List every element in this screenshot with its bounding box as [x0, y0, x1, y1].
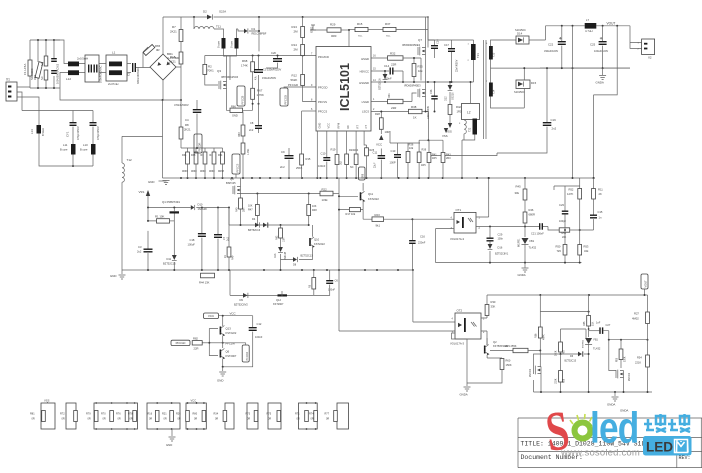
- wire vcc bus: [122, 269, 413, 271]
- connector X1: [6, 82, 17, 101]
- svg-text:T21: T21: [476, 53, 480, 58]
- svg-text:33K: 33K: [491, 305, 496, 309]
- svg-text:2R0: 2R0: [446, 157, 451, 160]
- svg-text:BSP135: BSP135: [226, 181, 236, 185]
- svg-text:S10150C: S10150C: [514, 90, 525, 94]
- resistor R38 1K: [409, 109, 423, 113]
- svg-text:REV:: REV:: [679, 455, 691, 461]
- svg-text:0R: 0R: [194, 418, 197, 421]
- net PFCDR rot flag2: [242, 345, 249, 362]
- node vcc q13: [222, 315, 224, 317]
- resistor R67 176K: [252, 72, 254, 89]
- svg-text:R49: R49: [232, 255, 235, 260]
- svg-text:1.76K: 1.76K: [257, 93, 264, 97]
- svg-text:2n2: 2n2: [249, 128, 254, 132]
- resistor R39 1R5: [418, 140, 420, 152]
- svg-text:127K: 127K: [567, 192, 573, 196]
- svg-text:BZT52B16: BZT52B16: [379, 78, 382, 90]
- svg-text:B core: B core: [80, 148, 88, 152]
- resistor R2 70K1: [204, 56, 206, 65]
- svg-text:D2: D2: [203, 10, 207, 14]
- svg-text:100nF/305VAC: 100nF/305VAC: [99, 65, 103, 83]
- mosfet Q5 2N7002: [534, 366, 542, 375]
- svg-text:R55: R55: [583, 321, 586, 326]
- diode D15 S10150C: [516, 80, 530, 89]
- svg-text:PFCCS: PFCCS: [318, 110, 327, 114]
- svg-text:R72: R72: [60, 413, 65, 416]
- svg-text:47u: 47u: [255, 75, 258, 80]
- svg-text:680R: 680R: [529, 213, 535, 217]
- svg-text:Q3: Q3: [217, 69, 221, 73]
- svg-text:R74: R74: [309, 413, 314, 416]
- svg-text:C22: C22: [548, 43, 554, 47]
- svg-text:0R: 0R: [149, 418, 152, 421]
- svg-text:VCC: VCC: [327, 123, 331, 129]
- svg-text:10K: 10K: [312, 205, 317, 208]
- svg-text:35R: 35R: [243, 207, 246, 212]
- svg-text:10R: 10R: [283, 237, 286, 242]
- svg-text:R17 10k: R17 10k: [346, 212, 356, 216]
- svg-text:Q1 PMMT491: Q1 PMMT491: [162, 200, 180, 204]
- svg-text:0R68: 0R68: [182, 171, 188, 173]
- wire d4 row: [229, 208, 309, 226]
- svg-text:R7: R7: [172, 25, 176, 29]
- capacitor C20in: [51, 58, 57, 59]
- svg-text:51K: 51K: [592, 321, 595, 326]
- wire input top rail: [30, 40, 60, 62]
- capacitor C1: [132, 63, 133, 72]
- resistor R7 2K21: [180, 17, 182, 30]
- wire ot2 feed top: [413, 270, 455, 322]
- svg-text:C26: C26: [430, 89, 433, 94]
- svg-text:DR8: DR8: [363, 173, 365, 178]
- svg-text:R52: R52: [569, 188, 574, 192]
- wire Q7 drain to rail: [426, 17, 429, 48]
- svg-text:MC/FB1: MC/FB1: [519, 238, 521, 247]
- resistor R56 464K: [539, 312, 541, 327]
- wire ot2 out2: [481, 331, 487, 345]
- node ot1 dots: [488, 177, 490, 179]
- svg-text:B core: B core: [218, 40, 221, 48]
- capacitor C9 2n2: [288, 154, 290, 156]
- node pe: [72, 165, 74, 167]
- optocoupler OT1 VOL617A-3: [454, 212, 476, 233]
- svg-text:GND: GND: [217, 379, 223, 383]
- resistor R32 22R: [388, 56, 404, 60]
- resistor R59 530K: [620, 340, 622, 349]
- node pfcdr: [222, 342, 224, 344]
- svg-text:Q11: Q11: [368, 192, 374, 196]
- capacitor C13 100pF: [397, 143, 399, 154]
- node q1 dots: [147, 207, 149, 209]
- resistor R43 2R0: [442, 140, 444, 152]
- svg-text:2K21: 2K21: [184, 128, 191, 132]
- node bus dots: [180, 177, 182, 179]
- svg-text:FB1: FB1: [594, 339, 599, 342]
- wire Q8 source: [426, 97, 429, 141]
- wire ot2 feeds: [339, 178, 455, 331]
- capacitor CY1: [70, 122, 77, 123]
- transformer T23 secondary: [489, 46, 493, 60]
- svg-text:R58: R58: [564, 378, 566, 383]
- svg-text:0R68: 0R68: [191, 171, 197, 173]
- svg-text:T11: T11: [216, 25, 221, 29]
- svg-text:0R: 0R: [178, 418, 181, 421]
- node rail100: [162, 99, 164, 101]
- wire q2 col: [486, 338, 488, 344]
- svg-text:C23: C23: [559, 203, 564, 207]
- net PFCGD rot flag: [280, 88, 288, 106]
- svg-text:20K: 20K: [562, 236, 567, 239]
- svg-text:22R: 22R: [391, 63, 396, 67]
- svg-text:VCC: VCC: [191, 399, 197, 403]
- svg-text:R63: R63: [238, 132, 241, 137]
- svg-text:C21 100nF: C21 100nF: [531, 232, 544, 236]
- capacitor C6 100nF: [329, 270, 331, 280]
- svg-text:R75: R75: [267, 413, 272, 416]
- inductor L14: [37, 125, 42, 134]
- resistor R44 13K: [201, 273, 215, 278]
- svg-text:0R: 0R: [268, 418, 271, 421]
- svg-text:L7: L7: [586, 18, 590, 22]
- svg-text:PFCGD: PFCGD: [318, 86, 327, 90]
- svg-text:0R: 0R: [32, 418, 35, 421]
- resistor R34 0R68: [187, 148, 189, 152]
- svg-text:www.sosoled.com: www.sosoled.com: [560, 448, 640, 459]
- svg-text:R40: R40: [236, 207, 239, 212]
- inductor L6 core: [235, 38, 239, 49]
- resistor R64 0R68: [222, 148, 224, 152]
- svg-text:C4: C4: [185, 118, 189, 122]
- resistor R36 10k: [407, 143, 409, 152]
- resistor R15 n.c.: [349, 29, 355, 31]
- svg-text:R59: R59: [617, 357, 619, 362]
- svg-text:D9: D9: [240, 298, 244, 302]
- svg-text:D14: D14: [517, 32, 523, 36]
- resistor R33 0R68: [195, 148, 197, 152]
- svg-text:100uF: 100uF: [188, 243, 196, 247]
- svg-text:T24: T24: [493, 89, 496, 94]
- node mesh bottom dots: [540, 391, 542, 393]
- svg-text:R34: R34: [182, 154, 187, 157]
- diode D10 1N4148: [191, 205, 195, 210]
- svg-text:1R5: 1R5: [432, 157, 437, 160]
- diode D12 SS210: [449, 82, 451, 85]
- wire fb bottom: [436, 262, 582, 264]
- svg-text:R35: R35: [418, 65, 424, 69]
- resistor R58 152K: [560, 354, 562, 371]
- resistor R77 0R: [337, 403, 349, 429]
- svg-text:0R: 0R: [297, 418, 300, 421]
- svg-text:IPP60R125C6: IPP60R125C6: [221, 75, 239, 79]
- inductor L10: [91, 144, 96, 155]
- resistor group R79 R70 R76 R78: [94, 403, 138, 429]
- svg-text:IPD600R45E3: IPD600R45E3: [404, 84, 421, 88]
- svg-text:LED: LED: [646, 440, 673, 455]
- svg-text:D15: D15: [531, 81, 537, 85]
- svg-text:Q12: Q12: [276, 298, 281, 302]
- svg-text:330nF/305VAC: 330nF/305VAC: [137, 67, 140, 84]
- resistor R22 133k: [319, 193, 321, 195]
- wire Q7 source / half-bridge node: [425, 55, 427, 83]
- wire q9 row: [241, 194, 321, 199]
- svg-text:PFCDR: PFCDR: [198, 142, 202, 151]
- svg-text:2K21: 2K21: [169, 60, 176, 64]
- svg-text:2N7002: 2N7002: [530, 368, 532, 377]
- svg-text:R53: R53: [584, 245, 589, 249]
- transformer T21 primary: [452, 40, 474, 44]
- node q11 dots: [338, 195, 340, 197]
- resistor R30 33K: [486, 295, 488, 305]
- transistor Q1 PMMT491: [170, 211, 180, 213]
- svg-text:1nF: 1nF: [596, 322, 601, 325]
- resistor R53 34k: [578, 245, 582, 256]
- svg-text:D11: D11: [167, 257, 172, 261]
- resistor R19: [336, 131, 338, 155]
- logo sou char 1: [644, 414, 666, 432]
- ground GND main: [162, 100, 164, 178]
- svg-text:T23: T23: [493, 52, 496, 57]
- svg-text:464K: 464K: [543, 334, 546, 340]
- diode D14 S10150C: [516, 36, 529, 44]
- wire PE line: [22, 111, 93, 123]
- svg-text:R70: R70: [101, 413, 106, 416]
- svg-text:VSS: VSS: [44, 399, 50, 403]
- resistor R31 22R: [388, 99, 404, 103]
- svg-text:2x0.5mH: 2x0.5mH: [77, 57, 88, 61]
- svg-text:L12: L12: [66, 77, 71, 81]
- svg-text:22uF: 22uF: [374, 162, 377, 168]
- svg-text:C11: C11: [373, 151, 378, 155]
- title block frame: [518, 418, 702, 468]
- capacitor C22 330uF/100V: [561, 26, 563, 41]
- capacitor C15 1n: [590, 215, 597, 216]
- svg-text:Q7: Q7: [418, 38, 422, 42]
- wire q1 row: [148, 207, 229, 209]
- wire L12: [54, 40, 85, 88]
- svg-text:Q13: Q13: [226, 327, 232, 331]
- svg-text:T22: T22: [469, 127, 472, 132]
- svg-text:152K: 152K: [556, 378, 558, 384]
- svg-text:R60: R60: [506, 359, 511, 363]
- svg-text:LSGD: LSGD: [362, 100, 369, 104]
- svg-text:150uF/250V: 150uF/250V: [262, 76, 276, 80]
- capacitor C3 150uF: [258, 56, 260, 70]
- wire q13 base: [209, 329, 218, 356]
- resistor R24: [355, 131, 357, 154]
- wire VOUT rail: [546, 25, 631, 27]
- zener D9 BZT52C8V2: [243, 293, 248, 298]
- svg-text:530K: 530K: [625, 356, 627, 362]
- wire shunt row top: [181, 147, 223, 149]
- capacitor CY2: [90, 122, 97, 123]
- resistor group R26 R80: [186, 403, 206, 429]
- transformer T24 secondary: [489, 83, 493, 97]
- net PFCGD flag: [171, 340, 190, 345]
- svg-text:HSVCC: HSVCC: [360, 70, 369, 74]
- svg-text:221K: 221K: [635, 361, 641, 365]
- svg-text:D1: D1: [252, 27, 256, 31]
- svg-text:2n2: 2n2: [280, 165, 285, 169]
- svg-text:D4: D4: [252, 217, 256, 221]
- svg-text:R21: R21: [162, 413, 167, 416]
- capacitor C27 1nF: [589, 330, 600, 332]
- wire q12 row: [230, 270, 314, 295]
- resistor R23 9k1: [372, 217, 384, 222]
- svg-text:RFM: RFM: [337, 123, 341, 129]
- svg-text:C25: C25: [590, 43, 596, 47]
- mosfet Q3 IPP60R125C6: [219, 81, 227, 90]
- svg-text:TL432: TL432: [593, 347, 601, 351]
- resistor R14 2M: [302, 38, 304, 45]
- capacitor C7 2u2: [217, 208, 219, 235]
- svg-text:R62: R62: [276, 235, 279, 240]
- svg-text:R44 13K: R44 13K: [199, 281, 210, 285]
- svg-text:R48: R48: [312, 209, 317, 212]
- zener D6 BZT52C15: [578, 352, 582, 357]
- resistor R12 562K: [302, 56, 304, 75]
- svg-text:R19: R19: [331, 148, 336, 152]
- svg-text:PFCDR: PFCDR: [226, 341, 235, 345]
- svg-text:VSS: VSS: [139, 190, 145, 194]
- svg-text:R33: R33: [191, 154, 196, 157]
- wire OT1 pin1: [476, 178, 489, 217]
- svg-text:OT2: OT2: [457, 309, 463, 313]
- logo letter S: [542, 399, 573, 463]
- svg-text:GNDA: GNDA: [460, 393, 468, 397]
- svg-text:PFCGD: PFCGD: [284, 95, 288, 104]
- svg-text:C27: C27: [606, 323, 611, 327]
- svg-text:PFCGD: PFCGD: [288, 83, 298, 87]
- svg-text:KST2907: KST2907: [273, 303, 284, 306]
- svg-text:1N4148: 1N4148: [198, 207, 208, 211]
- svg-text:22R: 22R: [194, 347, 199, 351]
- svg-text:R51: R51: [562, 232, 567, 235]
- wire T11 to cores: [214, 29, 238, 80]
- svg-text:PFCDR: PFCDR: [246, 352, 249, 361]
- svg-text:PFCZCD: PFCZCD: [318, 55, 329, 59]
- svg-text:R78: R78: [128, 413, 133, 416]
- svg-text:2K: 2K: [224, 255, 227, 258]
- svg-text:R34: R34: [214, 413, 219, 416]
- svg-text:10R: 10R: [385, 130, 390, 134]
- svg-text:0R: 0R: [130, 418, 133, 421]
- wire gnda rail: [540, 67, 630, 69]
- svg-text:ICL5101: ICL5101: [338, 63, 352, 111]
- svg-text:TL432: TL432: [529, 246, 537, 250]
- svg-text:PFCCB: PFCCB: [241, 95, 245, 104]
- net PFCDR rot flag: [194, 134, 202, 153]
- svg-text:100pF: 100pF: [559, 220, 567, 223]
- svg-text:GNDA: GNDA: [596, 81, 604, 85]
- zener D4 BZT52C16: [255, 223, 259, 228]
- svg-text:R16: R16: [148, 413, 153, 416]
- svg-text:R37: R37: [385, 22, 391, 26]
- resistor R46 680R: [524, 200, 526, 212]
- transistor Q13 KST2222: [222, 316, 224, 326]
- wire upper link: [428, 17, 452, 40]
- svg-text:0R: 0R: [311, 418, 314, 421]
- svg-text:133k: 133k: [322, 198, 329, 202]
- wire Q3 drain: [224, 56, 227, 82]
- zener D8 BZT52C13: [293, 257, 297, 262]
- node r29: [348, 29, 350, 31]
- svg-text:D16: D16: [498, 246, 503, 250]
- svg-text:0R: 0R: [103, 418, 106, 421]
- svg-text:150K: 150K: [506, 363, 512, 367]
- resistor R11 2K: [593, 178, 595, 189]
- svg-text:R67: R67: [257, 89, 263, 93]
- net PFCCS rot flag: [237, 86, 245, 106]
- svg-text:VOL617A-3: VOL617A-3: [450, 342, 465, 346]
- resistor R62 10R: [280, 225, 282, 228]
- wire mesh mid row: [609, 339, 648, 341]
- choke L12: [68, 62, 79, 67]
- diode D2: [207, 15, 212, 20]
- svg-text:R81: R81: [30, 413, 35, 416]
- svg-text:R77: R77: [325, 413, 330, 416]
- resistor R5: [313, 270, 315, 278]
- svg-text:KST2222: KST2222: [226, 331, 237, 335]
- wire CY2-L10: [92, 127, 94, 166]
- svg-text:1k2: 1k2: [340, 160, 343, 165]
- bridge BR1: [150, 54, 176, 80]
- node vout2 dots: [588, 294, 590, 296]
- svg-text:C19: C19: [551, 118, 557, 122]
- ground GNDA mesh: [614, 392, 616, 396]
- svg-text:C18: C18: [190, 238, 195, 242]
- inductor T11 coil: [193, 17, 195, 29]
- svg-text:SS210: SS210: [452, 92, 455, 100]
- node gnda rail dots: [561, 67, 563, 69]
- inductor L7 4.7uH: [585, 23, 597, 29]
- capacitor C11 22uF: [380, 149, 382, 156]
- svg-text:0R: 0R: [164, 418, 167, 421]
- svg-text:C14: C14: [384, 64, 390, 68]
- wire center tap: [491, 60, 631, 83]
- capacitor C29 100n: [489, 227, 491, 238]
- diode D13 1N4148: [280, 238, 282, 247]
- node r23: [411, 218, 413, 220]
- svg-text:OT1: OT1: [456, 208, 462, 212]
- svg-text:B core: B core: [60, 148, 68, 152]
- svg-text:PFCVS: PFCVS: [318, 100, 327, 104]
- choke L1 2x47mH: [106, 55, 127, 81]
- node d4: [240, 224, 242, 226]
- wire HSGND rail: [371, 81, 428, 83]
- svg-text:GND: GND: [318, 123, 322, 129]
- svg-text:2K21: 2K21: [170, 30, 177, 34]
- svg-text:100n: 100n: [498, 238, 504, 241]
- svg-text:R22: R22: [322, 188, 328, 192]
- svg-text:0R: 0R: [215, 418, 218, 421]
- svg-text:0R68: 0R68: [200, 171, 206, 173]
- svg-text:VCC: VCC: [208, 314, 215, 318]
- shunt-reg TL432 FB1: [522, 238, 529, 244]
- svg-text:9k1: 9k1: [376, 223, 381, 227]
- svg-text:R11: R11: [598, 188, 603, 192]
- svg-text:X1: X1: [6, 78, 10, 82]
- transistor Q11 KST2222: [360, 192, 362, 200]
- wire tl432b ref: [561, 329, 587, 342]
- svg-text:30k: 30k: [515, 191, 520, 195]
- svg-text:R23: R23: [375, 213, 381, 217]
- svg-text:470pF/250V: 470pF/250V: [97, 126, 100, 140]
- svg-text:100V/300VAC/X2: 100V/300VAC/X2: [56, 63, 60, 84]
- wire OT1 pin2: [476, 226, 539, 228]
- capacitor C14 100nF: [390, 68, 391, 75]
- svg-text:C10: C10: [321, 152, 326, 156]
